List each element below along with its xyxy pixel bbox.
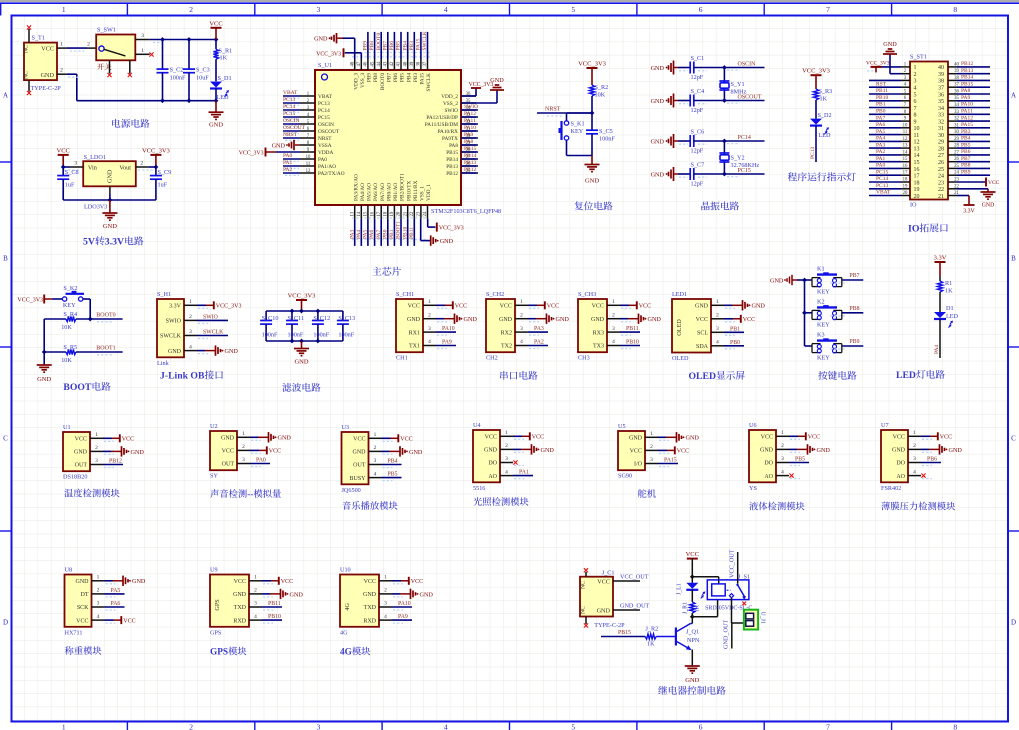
capacitor S_C7 — [678, 173, 690, 175]
svg-text:PA3/RX/AO: PA3/RX/AO — [353, 174, 359, 201]
switch S_SW1 bottom pins — [109, 60, 111, 73]
svg-text:VCC: VCC — [940, 435, 952, 441]
mcu U1 STM32F103C8T6 box — [315, 70, 461, 205]
svg-text:J_L1: J_L1 — [677, 583, 683, 595]
module U7 box — [881, 430, 908, 482]
svg-text:VCC: VCC — [485, 435, 497, 441]
svg-text:2: 2 — [650, 444, 653, 450]
mcu top pin 47 VSS_3 — [360, 59, 362, 70]
svg-text:VCC: VCC — [808, 435, 820, 441]
capacitor S_C11 — [291, 311, 293, 321]
svg-text:1: 1 — [428, 299, 431, 305]
svg-text:NC: NC — [24, 45, 30, 53]
svg-text:BOOT: BOOT — [63, 382, 92, 393]
svg-text:PB5: PB5 — [795, 457, 805, 463]
svg-text:B: B — [3, 255, 8, 263]
svg-text:10: 10 — [306, 155, 311, 160]
svg-text:10K: 10K — [61, 324, 72, 331]
LED J_L1 — [691, 577, 693, 583]
svg-text:7: 7 — [826, 5, 830, 14]
capacitor S_C3 — [188, 40, 190, 70]
svg-text:3: 3 — [317, 723, 321, 730]
mcu top pin 45 PB8 — [374, 59, 376, 70]
svg-text:PA4: PA4 — [876, 136, 886, 142]
svg-text:1: 1 — [913, 430, 916, 436]
svg-text:30: 30 — [938, 133, 944, 139]
svg-text:PB7: PB7 — [382, 41, 388, 51]
svg-text:SWCLK: SWCLK — [203, 330, 224, 336]
svg-text:S_C2: S_C2 — [170, 67, 184, 74]
svg-text:2: 2 — [242, 444, 245, 450]
svg-text:PA1: PA1 — [283, 160, 293, 166]
svg-text:VCC_3V3: VCC_3V3 — [216, 304, 242, 310]
S_ST1 right pin 38 — [948, 79, 957, 81]
module U8 box — [65, 575, 92, 627]
svg-text:PB5: PB5 — [388, 472, 398, 478]
svg-text:9: 9 — [914, 119, 917, 125]
VCC_3V3 power reset — [587, 67, 598, 69]
title sound module — [210, 489, 218, 498]
svg-text:7: 7 — [826, 723, 830, 730]
svg-text:4: 4 — [374, 471, 377, 477]
svg-text:DO: DO — [488, 461, 497, 467]
mcu bottom pin 18 PB0/AO — [387, 205, 389, 219]
module S_CH2 box — [486, 299, 515, 352]
mcu bottom pin 17 PA7/AO — [380, 205, 382, 219]
svg-text:10: 10 — [903, 123, 908, 128]
svg-text:GND: GND — [409, 449, 423, 456]
key K2 — [805, 312, 813, 314]
svg-text:1: 1 — [612, 299, 615, 305]
svg-text:STM32F103C8T6_LQFP48: STM32F103C8T6_LQFP48 — [431, 208, 501, 215]
svg-text:OSCOUT: OSCOUT — [283, 125, 306, 131]
svg-text:S_C7: S_C7 — [691, 162, 705, 169]
svg-text:PA2: PA2 — [876, 149, 886, 155]
svg-text:VCC: VCC — [57, 147, 70, 154]
column ticks bottom — [126, 722, 128, 730]
title liquid module — [749, 502, 758, 511]
svg-text:GND: GND — [440, 238, 454, 245]
svg-text:IO: IO — [910, 202, 917, 209]
mcu bottom pin 16 PA6/AO — [374, 205, 376, 219]
svg-text:J_C1: J_C1 — [602, 570, 615, 577]
svg-text:16: 16 — [914, 167, 920, 173]
window edge strip — [0, 0, 1019, 2]
mcu VCC_3V3 power top left — [343, 48, 345, 57]
svg-text:RXD: RXD — [233, 618, 246, 624]
svg-text:PC13: PC13 — [876, 183, 888, 189]
svg-text:16: 16 — [903, 164, 908, 169]
svg-text:4: 4 — [97, 614, 100, 620]
svg-text:12pF: 12pF — [691, 181, 704, 188]
svg-text:GPS: GPS — [210, 629, 222, 636]
svg-text:GND: GND — [760, 448, 774, 454]
mcu bottom pin 22 PB11/RX — [413, 205, 415, 219]
svg-text:PB7: PB7 — [961, 156, 971, 162]
svg-text:LED: LED — [819, 132, 832, 139]
key K1 — [805, 279, 813, 281]
svg-text:PB1: PB1 — [876, 102, 886, 108]
svg-text:2: 2 — [716, 313, 719, 319]
svg-text:PB13: PB13 — [464, 160, 476, 166]
title main chip — [372, 267, 381, 276]
svg-text:SG90: SG90 — [618, 473, 632, 480]
mcu left pin 1 VBAT — [300, 95, 315, 97]
svg-text:PA8: PA8 — [449, 143, 458, 149]
svg-text:S_R1: S_R1 — [219, 48, 233, 55]
svg-text:SWCLK: SWCLK — [160, 334, 182, 340]
svg-text:5: 5 — [571, 723, 575, 730]
net wire OSCIN — [724, 67, 764, 69]
svg-text:Vout: Vout — [119, 165, 131, 172]
svg-text:SWIO: SWIO — [166, 319, 182, 325]
title reset circuit — [574, 201, 583, 210]
svg-text:VCC: VCC — [281, 579, 293, 585]
mcu top pin 43 PB7 — [387, 59, 389, 70]
svg-text:GND: GND — [76, 579, 90, 585]
svg-text:VCC: VCC — [639, 304, 651, 310]
svg-text:11: 11 — [306, 162, 311, 167]
svg-text:35: 35 — [938, 99, 944, 105]
svg-text:J-Link OB: J-Link OB — [160, 371, 205, 382]
svg-text:6: 6 — [699, 5, 703, 14]
svg-text:PA7: PA7 — [876, 115, 886, 121]
svg-text:S_Y1: S_Y1 — [731, 81, 745, 88]
key S_K2 — [62, 297, 66, 301]
module U9 box — [210, 575, 249, 627]
mcu top pin 39 PB3 — [413, 59, 415, 70]
filter bottom rail wire — [266, 340, 343, 342]
module U6 box — [749, 430, 776, 482]
GND symbol filter — [301, 341, 303, 349]
svg-text:VCC_3V3: VCC_3V3 — [288, 293, 316, 300]
crystal S_Y2 — [723, 141, 725, 174]
svg-text:8MHz: 8MHz — [731, 89, 747, 96]
mcu left pin 2 PC13 — [300, 102, 315, 104]
svg-text:S_CH2: S_CH2 — [486, 291, 504, 298]
svg-text:S_C6: S_C6 — [691, 129, 705, 136]
svg-text:KEY: KEY — [817, 321, 830, 328]
svg-text:OUT: OUT — [353, 463, 366, 469]
svg-text:3: 3 — [716, 326, 719, 332]
svg-text:GND: GND — [752, 303, 766, 310]
capacitor S_C1 — [678, 67, 690, 69]
svg-text:SCL: SCL — [697, 331, 708, 337]
GND symbol reset — [591, 156, 593, 165]
capacitor S_C10 — [265, 311, 267, 321]
svg-text:PB13: PB13 — [961, 68, 973, 74]
svg-text:GND: GND — [949, 447, 963, 454]
svg-text:K3: K3 — [817, 332, 825, 339]
mcu top pin 46 PB9 — [367, 59, 369, 70]
resistor S_R2 — [589, 85, 594, 96]
svg-text:S_C10: S_C10 — [262, 315, 279, 322]
svg-text:OUT: OUT — [75, 463, 88, 469]
svg-text:GND: GND — [648, 316, 662, 323]
svg-text:GND: GND — [651, 65, 665, 72]
svg-text:20: 20 — [903, 191, 908, 196]
svg-text:PC14: PC14 — [738, 135, 751, 141]
column ticks top — [126, 3, 128, 15]
svg-text:4: 4 — [254, 614, 257, 620]
svg-text:GND: GND — [499, 317, 513, 323]
svg-text:1K: 1K — [694, 604, 700, 612]
svg-text:46: 46 — [364, 61, 369, 66]
mcu left pin 8 VSSA — [300, 144, 315, 146]
svg-text:PA9: PA9 — [961, 95, 971, 101]
svg-text:S_C1: S_C1 — [691, 55, 705, 62]
svg-text:22: 22 — [410, 211, 415, 216]
svg-text:PA0: PA0 — [256, 458, 266, 464]
svg-text:25: 25 — [938, 167, 944, 173]
svg-text:PB15: PB15 — [464, 146, 476, 152]
svg-text:12: 12 — [306, 169, 311, 174]
mcu left pin 11 PA1/AO — [300, 165, 315, 167]
svg-text:1: 1 — [505, 430, 508, 436]
svg-text:PB3: PB3 — [961, 129, 971, 135]
svg-text:PA0: PA0 — [283, 153, 293, 159]
svg-text:C: C — [3, 435, 8, 443]
svg-text:S_Y2: S_Y2 — [731, 155, 745, 162]
mcu right pin 26 PB13 — [461, 165, 476, 167]
svg-text:18: 18 — [384, 211, 389, 216]
filter top rail wire — [266, 310, 343, 312]
svg-text:VCC_3V3: VCC_3V3 — [439, 226, 464, 232]
svg-text:PA6/AO: PA6/AO — [373, 183, 379, 201]
svg-text:20: 20 — [914, 194, 920, 200]
svg-text:U1: U1 — [63, 424, 71, 431]
key K1 net wire — [842, 279, 864, 281]
relay J_S1 outline — [707, 580, 749, 600]
svg-text:VBAT: VBAT — [318, 94, 333, 100]
svg-text:RX1: RX1 — [409, 330, 420, 336]
svg-text:NC: NC — [581, 606, 587, 614]
svg-text:PB12: PB12 — [446, 171, 458, 177]
svg-text:VCC: VCC — [696, 317, 708, 323]
capacitor S_C4 — [678, 100, 690, 102]
svg-text:PA10: PA10 — [442, 326, 455, 332]
title program running indicator — [788, 172, 797, 181]
svg-text:CH3: CH3 — [578, 355, 590, 362]
svg-text:CH2: CH2 — [486, 355, 498, 362]
svg-text:PB9: PB9 — [363, 41, 369, 51]
switch S_SW1 symbol — [99, 46, 104, 51]
svg-text:SWIO: SWIO — [203, 314, 218, 320]
mcu GND top left — [338, 37, 343, 39]
svg-text:GND: GND — [770, 278, 784, 285]
LED S_D2 — [810, 119, 822, 125]
svg-text:NC: NC — [24, 71, 30, 79]
svg-text:1: 1 — [189, 299, 192, 305]
switch S_SW1 box — [96, 35, 135, 61]
svg-text:PB10/TX: PB10/TX — [406, 181, 412, 201]
svg-text:PA9: PA9 — [442, 340, 452, 346]
svg-text:PA10/RX: PA10/RX — [438, 129, 459, 135]
svg-text:PB7: PB7 — [850, 273, 860, 279]
svg-text:TYPE-C-2P: TYPE-C-2P — [31, 85, 62, 92]
svg-text:R1: R1 — [945, 280, 952, 287]
svg-text:S_D2: S_D2 — [818, 112, 832, 119]
svg-text:3: 3 — [914, 79, 917, 85]
svg-text:38: 38 — [417, 61, 422, 66]
S_ST1 right pin 23 — [948, 181, 957, 183]
svg-text:2: 2 — [428, 312, 431, 318]
svg-text:15: 15 — [364, 211, 369, 216]
relay coil bottom wire — [692, 616, 717, 618]
svg-text:GND: GND — [41, 72, 55, 79]
S_T1 bottom stub pin — [28, 80, 30, 91]
mcu GND bottom — [430, 235, 432, 245]
capacitor S_C6 — [678, 140, 690, 142]
svg-text:SCK: SCK — [77, 605, 89, 611]
svg-text:PB12: PB12 — [109, 459, 122, 465]
svg-text:PB10: PB10 — [402, 227, 408, 239]
svg-text:TX2: TX2 — [501, 344, 512, 350]
svg-text:2: 2 — [254, 588, 257, 594]
svg-text:1: 1 — [650, 431, 653, 437]
svg-text:16: 16 — [370, 211, 375, 216]
svg-text:PB1: PB1 — [730, 326, 740, 332]
svg-text:VCC: VCC — [686, 551, 699, 558]
svg-text:32: 32 — [938, 119, 944, 125]
svg-text:2: 2 — [97, 588, 100, 594]
resistor S_R1 — [215, 40, 217, 50]
svg-text:7: 7 — [914, 106, 917, 112]
svg-text:J_R1: J_R1 — [682, 602, 688, 614]
S_ST1 left pin 13 — [901, 147, 910, 149]
S_ST1 left pin 1 — [901, 66, 910, 68]
svg-text:GND: GND — [290, 591, 304, 598]
svg-text:U4: U4 — [473, 422, 481, 429]
svg-text:S_C5: S_C5 — [599, 128, 613, 135]
svg-text:42: 42 — [390, 61, 395, 66]
svg-text:PA5: PA5 — [876, 129, 886, 135]
GND symbol relay — [685, 665, 700, 667]
svg-text:11: 11 — [903, 130, 908, 135]
svg-text:44: 44 — [377, 61, 382, 66]
svg-text:3.3V: 3.3V — [963, 209, 975, 215]
svg-text:PB3: PB3 — [413, 73, 419, 82]
svg-text:20: 20 — [397, 211, 402, 216]
mcu right pin 29 PA8 — [461, 144, 476, 146]
svg-text:D1: D1 — [946, 305, 954, 312]
module U10 box — [340, 575, 379, 627]
S_ST1 right pin 27 — [948, 154, 957, 156]
svg-text:PB9: PB9 — [367, 73, 373, 82]
svg-text:PA3: PA3 — [534, 326, 544, 332]
svg-text:HX711: HX711 — [65, 629, 83, 636]
svg-text:GND: GND — [484, 448, 498, 454]
mcu VDD_3 wire to 3v3 top — [360, 53, 362, 59]
title dianyuan dianlu — [112, 119, 120, 128]
svg-text:PB6: PB6 — [961, 149, 971, 155]
svg-text:PA0: PA0 — [318, 157, 327, 163]
S_ST1 right pin 37 — [948, 86, 957, 88]
svg-text:S_C4: S_C4 — [691, 88, 705, 95]
svg-text:4: 4 — [444, 5, 448, 14]
svg-text:PA9: PA9 — [398, 614, 408, 620]
svg-text:Vin: Vin — [88, 165, 97, 172]
svg-text:PA15: PA15 — [664, 458, 677, 464]
module S_CH3 box — [578, 299, 607, 352]
svg-text:VCC: VCC — [547, 304, 559, 310]
svg-text:S_R4: S_R4 — [63, 311, 77, 318]
svg-text:PB8: PB8 — [961, 163, 971, 169]
svg-text:3: 3 — [384, 601, 387, 607]
module S_H1 box — [157, 299, 184, 357]
title key circuit — [818, 371, 827, 380]
svg-text:48: 48 — [350, 61, 355, 66]
svg-text:23: 23 — [938, 180, 944, 186]
svg-text:45: 45 — [370, 61, 375, 66]
svg-text:VCC: VCC — [455, 304, 467, 310]
S_ST1 left pin 7 — [901, 107, 910, 109]
svg-text:GND: GND — [107, 169, 114, 183]
svg-text:PB4: PB4 — [402, 41, 408, 51]
keys left rail wire — [804, 280, 806, 346]
NRST net wire — [537, 112, 592, 114]
S_ST1 left pin 9 — [901, 120, 910, 122]
svg-text:PA4/AO: PA4/AO — [360, 183, 366, 201]
svg-text:VCC: VCC — [222, 449, 234, 455]
svg-text:JQ6500: JQ6500 — [342, 487, 361, 494]
title light module — [473, 497, 482, 506]
mcu bottom pin 20 PB2/BOOT1 — [400, 205, 402, 219]
svg-text:3: 3 — [520, 326, 523, 332]
svg-text:39: 39 — [938, 72, 944, 78]
svg-text:PC15: PC15 — [876, 169, 888, 175]
svg-text:PC13: PC13 — [810, 147, 816, 159]
svg-text:RXD: RXD — [363, 618, 376, 624]
svg-text:PB11: PB11 — [626, 326, 639, 332]
svg-text:GND: GND — [817, 447, 831, 454]
mcu right pin 25 PB12 — [461, 172, 476, 174]
svg-text:VDDA: VDDA — [318, 150, 333, 156]
S_ST1 right pin 28 — [948, 147, 957, 149]
svg-text:VCC: VCC — [761, 435, 773, 441]
svg-text:OLED: OLED — [689, 371, 716, 382]
svg-text:3.3V: 3.3V — [169, 304, 182, 310]
S_ST1 right pin 34 — [948, 107, 957, 109]
svg-text:28: 28 — [938, 146, 944, 152]
svg-text:100nF: 100nF — [338, 332, 354, 339]
svg-text:1: 1 — [914, 65, 917, 71]
svg-text:TX1: TX1 — [409, 344, 420, 350]
mcu VDD_1 wire to 3v3 bottom — [427, 219, 429, 227]
S_ST1 right pin 26 — [948, 161, 957, 163]
svg-text:43: 43 — [384, 61, 389, 66]
svg-text:PA8: PA8 — [464, 139, 474, 145]
svg-text:VCC: VCC — [893, 435, 905, 441]
mcu left pin 9 VDDA — [300, 151, 315, 153]
module LED1 box — [672, 299, 711, 353]
svg-text:PB10: PB10 — [876, 95, 888, 101]
mcu bottom pin 15 PA5/AO — [367, 205, 369, 219]
svg-text:GND: GND — [982, 203, 995, 209]
svg-text:GND_OUT: GND_OUT — [722, 620, 729, 649]
svg-text:GND: GND — [225, 348, 239, 355]
svg-text:1K: 1K — [945, 288, 953, 295]
svg-text:1: 1 — [60, 42, 63, 48]
svg-text:3: 3 — [189, 329, 192, 335]
mcu VSS_2 wire to gnd — [461, 102, 497, 104]
svg-text:27: 27 — [938, 153, 944, 159]
svg-text:5: 5 — [914, 92, 917, 98]
S_T1 top stub pin — [28, 29, 30, 43]
svg-text:PB12: PB12 — [961, 61, 973, 67]
3.3V power LED circuit — [935, 261, 946, 263]
mcu right pin 36 VDD_2 — [461, 95, 476, 97]
